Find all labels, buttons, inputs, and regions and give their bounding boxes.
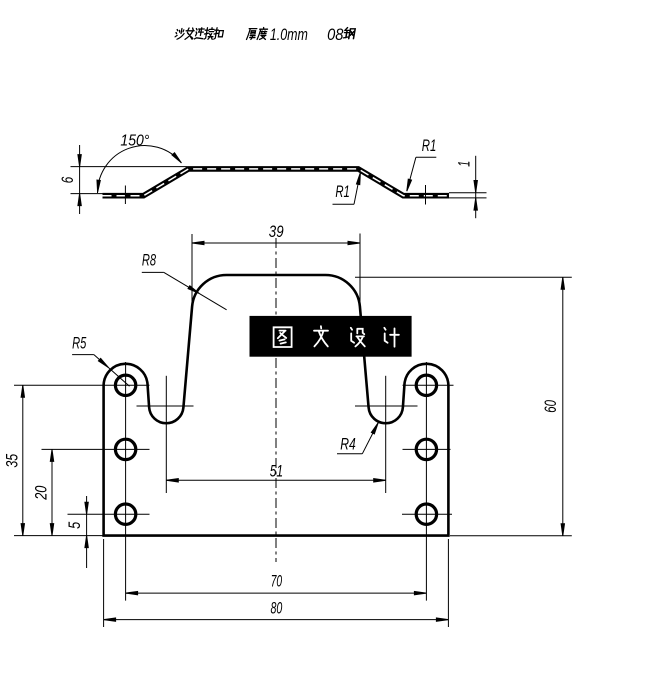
title char kou bbox=[213, 28, 224, 39]
dim 20 bbox=[51, 449, 53, 535]
R1 upper leader bbox=[416, 156, 436, 158]
svg-text:R1: R1 bbox=[335, 183, 350, 201]
svg-text:6: 6 bbox=[58, 176, 77, 183]
part outline bbox=[104, 275, 449, 536]
hole centerline tick right bbox=[425, 185, 427, 205]
dim 1 line bbox=[475, 156, 477, 218]
TITLE bbox=[175, 28, 356, 40]
extension line bottom-left bbox=[71, 193, 104, 195]
dim 80 bbox=[103, 539, 105, 627]
FRONT VIEW GROUP bbox=[14, 234, 572, 628]
wm char wen bbox=[314, 326, 328, 346]
title char hou bbox=[247, 29, 257, 40]
svg-text:R4: R4 bbox=[340, 434, 356, 453]
svg-text:20: 20 bbox=[31, 485, 50, 500]
PROFILE VIEW GROUP bbox=[71, 145, 487, 218]
svg-text:1: 1 bbox=[454, 161, 473, 167]
svg-text:80: 80 bbox=[271, 599, 283, 618]
dim 6 line bbox=[79, 145, 81, 214]
150 deg arc bbox=[97, 146, 181, 193]
title char fa bbox=[185, 28, 195, 39]
sheet centerline white dashes bbox=[103, 169, 450, 196]
hole row centerlines bbox=[14, 384, 150, 386]
holes bbox=[115, 375, 135, 395]
wm char she bbox=[351, 328, 365, 347]
hole column centerlines bbox=[125, 362, 127, 601]
title char jie bbox=[204, 28, 215, 40]
svg-text:35: 35 bbox=[2, 453, 21, 467]
dim 35 bbox=[14, 535, 103, 537]
hole centerline tick left bbox=[124, 186, 126, 205]
WATERMARK BOX bbox=[250, 316, 412, 357]
title char sha bbox=[175, 29, 185, 40]
R8 leader bbox=[142, 271, 164, 273]
svg-text:150°: 150° bbox=[120, 132, 150, 149]
svg-text:5: 5 bbox=[65, 521, 84, 528]
dim 70 bbox=[126, 592, 427, 594]
wm char ji bbox=[384, 328, 399, 347]
title char gang bbox=[343, 28, 355, 39]
sheet metal profile band bbox=[103, 169, 450, 196]
dim 51 bbox=[166, 479, 385, 481]
dim 60 bbox=[355, 276, 572, 278]
svg-text:R8: R8 bbox=[142, 252, 157, 270]
svg-text:1.0mm: 1.0mm bbox=[270, 26, 308, 44]
dim 6 arrows bbox=[78, 155, 81, 167]
svg-text:70: 70 bbox=[271, 571, 283, 590]
svg-text:39: 39 bbox=[269, 222, 284, 241]
svg-text:60: 60 bbox=[541, 400, 560, 413]
R1 lower leader bbox=[333, 203, 355, 205]
R5 leader bbox=[72, 354, 94, 356]
title char lian bbox=[194, 28, 204, 39]
title char du bbox=[257, 28, 268, 40]
svg-text:R5: R5 bbox=[72, 334, 87, 352]
dim 39 bbox=[191, 234, 193, 310]
svg-text:51: 51 bbox=[270, 461, 283, 480]
R4 leader bbox=[337, 453, 362, 455]
wm char tu bbox=[274, 327, 292, 347]
svg-text:R1: R1 bbox=[422, 137, 437, 155]
dim 5 bbox=[86, 496, 88, 568]
vertical centerline bbox=[275, 238, 277, 562]
ext lines right for dim 1 bbox=[449, 192, 487, 194]
svg-text:08: 08 bbox=[327, 26, 344, 44]
U slot crosshairs bbox=[137, 405, 194, 407]
extension line top-left bbox=[71, 166, 188, 168]
150 arc arrows bbox=[96, 180, 100, 192]
